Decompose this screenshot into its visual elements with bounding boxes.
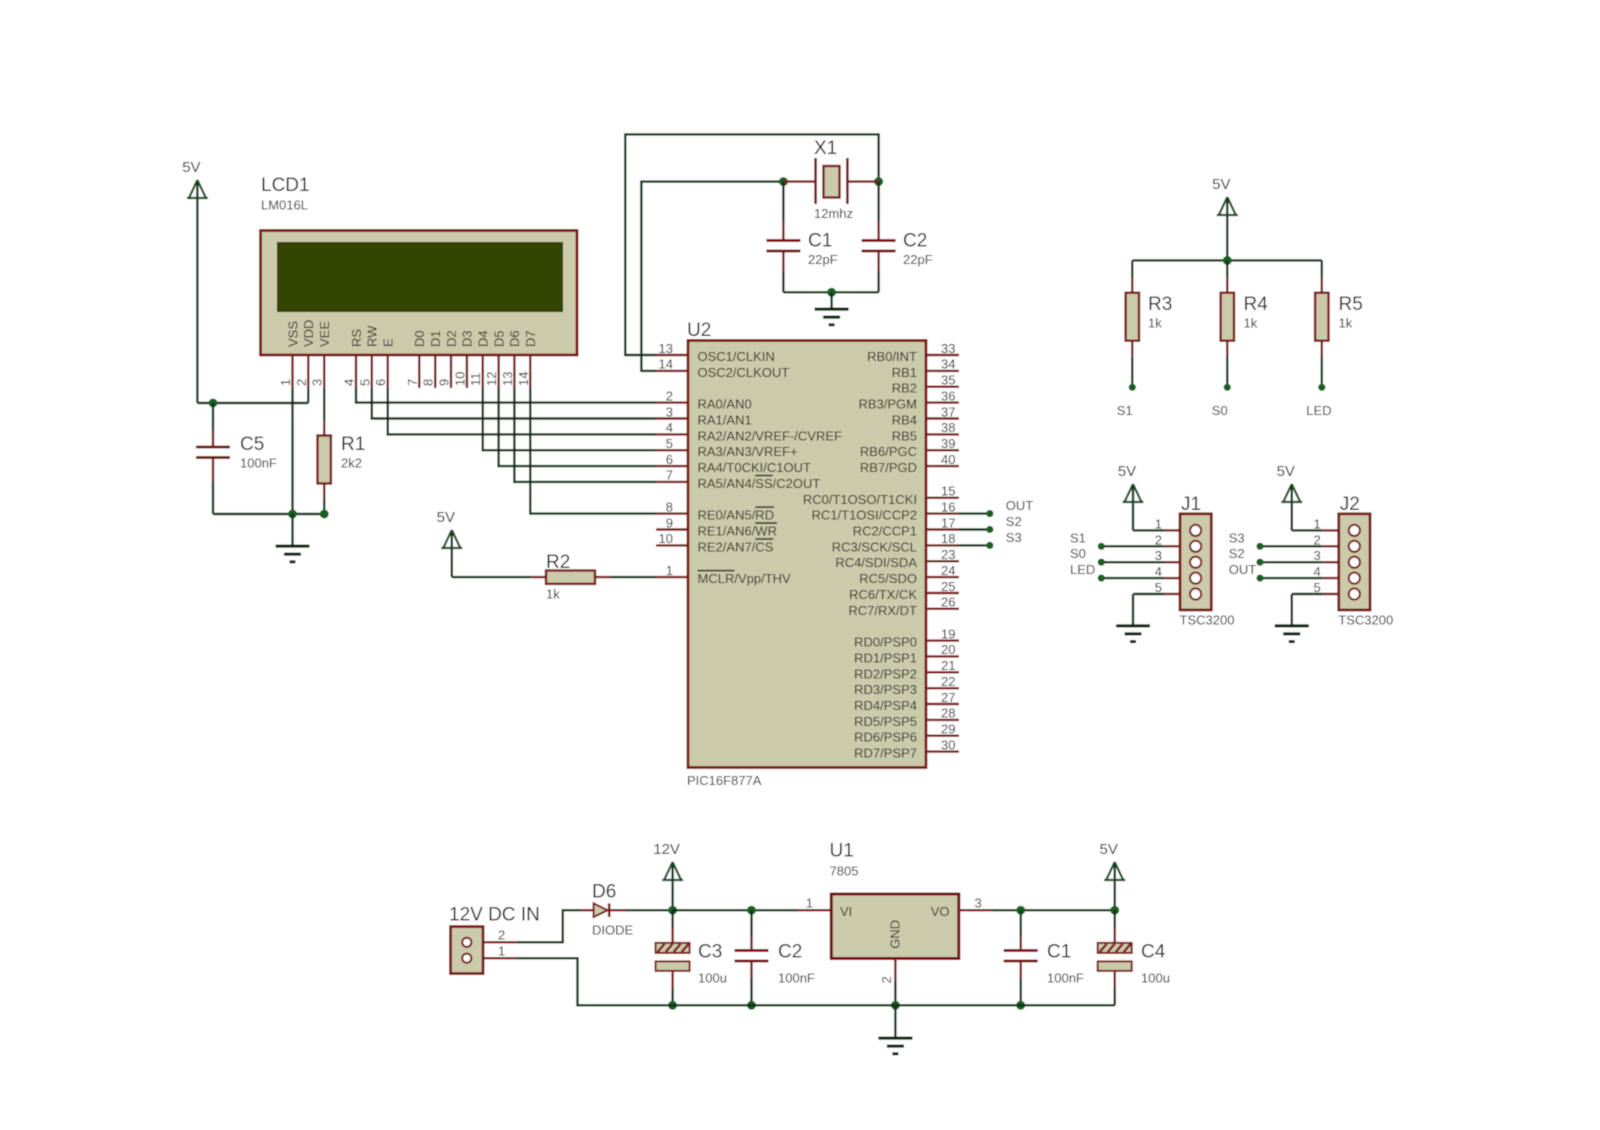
wire 5V rail (993, 909, 1115, 911)
U2 pin number 10 (659, 531, 673, 546)
regulator U1 7805 (830, 841, 959, 959)
svg-text:RC2/CCP1: RC2/CCP1 (853, 524, 917, 539)
svg-text:R4: R4 (1244, 294, 1269, 315)
ground LCD ground (276, 514, 310, 563)
wire R5 lower lead (1321, 357, 1323, 387)
svg-text:13: 13 (500, 372, 515, 386)
svg-text:1k: 1k (1244, 316, 1258, 331)
power 5V 5V-r2 (437, 509, 463, 577)
svg-text:2: 2 (1314, 532, 1321, 547)
node C1p top junction (1016, 906, 1025, 915)
capacitor C4 100u (electrolytic) (1098, 942, 1170, 986)
wire VDD drop (307, 388, 309, 403)
svg-text:1k: 1k (1339, 316, 1353, 331)
U2 pin 3 stub (656, 417, 688, 419)
U2 pin number 19 (941, 626, 955, 641)
svg-text:19: 19 (941, 626, 955, 641)
U2 pin number 38 (941, 420, 955, 435)
wire C2p upper lead (750, 910, 752, 936)
node terminal S0 (1224, 384, 1231, 391)
J2 pin number 4 (1314, 564, 1321, 579)
LCD pin 11 (D4) stub (482, 355, 484, 388)
U2 pin label 18 (832, 539, 917, 554)
wire OSC1 to crystal right (625, 134, 878, 355)
svg-text:5V: 5V (182, 159, 200, 176)
svg-text:7: 7 (666, 468, 673, 483)
svg-text:3: 3 (975, 896, 982, 911)
U1 pin number 1 (806, 896, 813, 911)
svg-text:PIC16F877A: PIC16F877A (687, 773, 762, 788)
12V-in pin number 2 (498, 928, 505, 943)
svg-text:2: 2 (294, 379, 309, 386)
connector J1 pin 4 stub (1164, 577, 1180, 579)
svg-text:1: 1 (806, 896, 813, 911)
svg-text:RC0/T1OSO/T1CKI: RC0/T1OSO/T1CKI (803, 492, 917, 507)
LCD pin 8 (D1) stub (434, 355, 436, 388)
svg-text:100nF: 100nF (1047, 971, 1084, 986)
U2 pin number 34 (941, 357, 955, 372)
U2 pin label 36 (858, 397, 917, 412)
svg-text:RB2: RB2 (892, 381, 917, 396)
U1 pin 3 stub (959, 909, 993, 911)
LCD pin 12 (D5) stub (497, 355, 499, 388)
resistor R5 (1315, 293, 1363, 341)
net label S1 (1070, 530, 1086, 545)
svg-text:23: 23 (941, 547, 955, 562)
LCD pin number 14 (516, 372, 531, 386)
LCD pin number 11 (468, 373, 483, 387)
svg-text:2: 2 (666, 388, 673, 403)
svg-text:R1: R1 (341, 434, 365, 455)
U2 pin label 2 (698, 397, 752, 412)
svg-text:10: 10 (659, 531, 673, 546)
svg-text:27: 27 (941, 690, 955, 705)
U2 pin 6 stub (656, 465, 688, 467)
wire pin2 to diode (516, 910, 580, 942)
U2 pin 5 stub (656, 449, 688, 451)
svg-text:10: 10 (452, 372, 467, 386)
svg-text:22pF: 22pF (903, 252, 933, 267)
svg-text:RD0/PSP0: RD0/PSP0 (854, 635, 917, 650)
svg-text:D6: D6 (507, 330, 522, 347)
resistor R4 bottom stub (1226, 341, 1228, 357)
LCD pin number 3 (310, 379, 325, 386)
connector J2 pin 5 stub (1323, 593, 1339, 595)
LCD pin number 4 (342, 379, 357, 386)
node terminal S2 (986, 526, 993, 533)
LCD pin 13 (D6) stub (513, 355, 515, 388)
svg-text:RD4/PSP4: RD4/PSP4 (854, 698, 917, 713)
LCD pin 4 (RS) stub (355, 355, 357, 388)
node crystal gnd junction (827, 288, 836, 297)
net label LED (1070, 562, 1095, 577)
LCD pin 7 (D0) stub (418, 355, 420, 388)
U2 pin label 3 (698, 413, 752, 428)
svg-text:38: 38 (941, 420, 955, 435)
connector J2 pin 2 stub (1323, 545, 1339, 547)
U2 pin number 23 (941, 547, 955, 562)
LCD pin number 8 (421, 379, 436, 386)
svg-text:33: 33 (941, 341, 955, 356)
wire C5 lower lead (212, 481, 214, 514)
svg-text:RD6/PSP6: RD6/PSP6 (854, 730, 917, 745)
U2 pin number 6 (666, 452, 673, 467)
svg-text:RD1/PSP1: RD1/PSP1 (854, 650, 917, 665)
U2 pin 26 stub (926, 608, 959, 610)
svg-text:RE1/AN6/WR: RE1/AN6/WR (698, 524, 777, 539)
wire VSS drop (291, 388, 293, 514)
svg-text:5V: 5V (1100, 841, 1118, 858)
U2 pin number 7 (666, 468, 673, 483)
connector J2 TSC3200 (1338, 494, 1393, 628)
svg-text:6: 6 (373, 379, 388, 386)
U2 pin 14 stub (656, 370, 688, 372)
svg-text:U1: U1 (830, 841, 854, 862)
12V-in pin number 1 (498, 944, 505, 959)
U2 pin number 20 (941, 642, 955, 657)
svg-text:RA4/T0CKI/C1OUT: RA4/T0CKI/C1OUT (698, 460, 811, 475)
svg-text:RA2/AN2/VREF-/CVREF: RA2/AN2/VREF-/CVREF (698, 428, 843, 443)
capacitor C4 top stub (1113, 928, 1115, 944)
svg-text:S0: S0 (1070, 546, 1086, 561)
ground supply ground (878, 1005, 912, 1055)
capacitor C5 top stub (212, 431, 214, 447)
node C2p bottom junction (747, 1001, 756, 1010)
power 5V 5V-r345 (1212, 176, 1238, 260)
svg-text:13: 13 (659, 341, 673, 356)
svg-text:36: 36 (941, 388, 955, 403)
U1 pin number 3 (975, 896, 982, 911)
wire C2p lower lead (750, 978, 752, 1005)
svg-text:22: 22 (941, 674, 955, 689)
U2 pin label 17 (853, 524, 917, 539)
U2 pin label 6 (698, 460, 811, 475)
svg-text:S2: S2 (1006, 514, 1022, 529)
svg-text:LM016L: LM016L (261, 198, 308, 213)
wire J1 pin2 wire (1101, 545, 1164, 547)
svg-text:RC1/T1OSI/CCP2: RC1/T1OSI/CCP2 (812, 508, 917, 523)
LCD pin 10 (D3) stub (466, 355, 468, 388)
svg-text:39: 39 (941, 436, 955, 451)
U2 pin number 16 (941, 499, 955, 514)
node crystal right node (874, 177, 883, 186)
svg-text:6: 6 (666, 452, 673, 467)
svg-text:D1: D1 (428, 330, 443, 347)
svg-text:RC7/RX/DT: RC7/RX/DT (848, 603, 917, 618)
U2 pin number 5 (666, 436, 673, 451)
U2 pin 36 stub (926, 401, 959, 403)
svg-text:RA5/AN4/SS/C2OUT: RA5/AN4/SS/C2OUT (698, 476, 821, 491)
svg-text:LCD1: LCD1 (261, 175, 310, 196)
U2 pin number 3 (666, 404, 673, 419)
U2 pin label 33 (867, 349, 917, 364)
U2 pin number 13 (659, 341, 673, 356)
svg-text:26: 26 (941, 595, 955, 610)
net label OUT (1229, 562, 1257, 577)
crystal X1 12mhz (814, 138, 853, 221)
svg-text:4: 4 (1155, 564, 1162, 579)
svg-text:5: 5 (1314, 580, 1321, 595)
svg-text:MCLR/Vpp/THV: MCLR/Vpp/THV (698, 571, 792, 586)
svg-text:8: 8 (666, 499, 673, 514)
wire 5V bus R3-R5 (1132, 259, 1322, 261)
resistor R3 bottom stub (1131, 341, 1133, 357)
capacitor C3 100u (electrolytic) (656, 942, 727, 986)
U2 pin 8 stub (656, 512, 688, 514)
wire U2 to S2 (959, 528, 990, 530)
U2 pin 21 stub (926, 671, 959, 673)
svg-text:RB0/INT: RB0/INT (867, 349, 917, 364)
svg-text:RC4/SDI/SDA: RC4/SDI/SDA (835, 555, 917, 570)
LCD pin number 2 (294, 379, 309, 386)
U2 pin number 2 (666, 388, 673, 403)
svg-text:C1: C1 (808, 231, 832, 252)
svg-text:100nF: 100nF (778, 971, 815, 986)
J1 pin number 4 (1155, 564, 1162, 579)
svg-text:5V: 5V (1212, 176, 1230, 193)
wire J1 pin4 wire (1101, 577, 1164, 579)
U2 pin number 26 (941, 595, 955, 610)
U2 pin label 19 (854, 635, 917, 650)
svg-text:S0: S0 (1212, 403, 1228, 418)
wire C3 lower lead (671, 988, 673, 1005)
wire R1 lower lead (323, 499, 325, 514)
J1 pin number 1 (1155, 516, 1162, 531)
U2 pin number 4 (666, 420, 673, 435)
svg-text:28: 28 (941, 706, 955, 721)
svg-text:17: 17 (941, 515, 955, 530)
ground crystal ground (815, 292, 849, 326)
node gnd rail junction (891, 1001, 900, 1010)
svg-text:100u: 100u (1141, 971, 1170, 986)
capacitor C2 bottom stub (877, 252, 879, 272)
svg-text:TSC3200: TSC3200 (1338, 613, 1393, 628)
svg-text:9: 9 (666, 515, 673, 530)
wire D4 to RA3 (483, 388, 656, 450)
node crystal left node (779, 177, 788, 186)
U2 pin label 22 (854, 682, 917, 697)
svg-text:35: 35 (941, 373, 955, 388)
svg-text:OSC2/CLKOUT: OSC2/CLKOUT (698, 365, 790, 380)
svg-text:14: 14 (516, 372, 531, 386)
svg-text:11: 11 (468, 373, 483, 387)
U2 pin label 9 (698, 523, 778, 538)
svg-text:3: 3 (1155, 548, 1162, 563)
svg-text:5V: 5V (1118, 463, 1136, 480)
svg-text:C3: C3 (698, 942, 722, 963)
svg-text:RC5/SDO: RC5/SDO (859, 571, 917, 586)
svg-text:100u: 100u (698, 971, 727, 986)
U2 pin label 30 (854, 746, 917, 761)
svg-text:RW: RW (365, 325, 380, 347)
U2 pin 30 stub (926, 750, 959, 752)
svg-text:8: 8 (421, 379, 436, 386)
U2 pin 9 stub (656, 528, 688, 530)
svg-text:TSC3200: TSC3200 (1180, 613, 1235, 628)
svg-text:DIODE: DIODE (592, 923, 634, 938)
wire D6 to RA5 (514, 388, 656, 482)
U2 pin number 15 (941, 484, 955, 499)
LCD pin number 6 (373, 379, 388, 386)
node terminal OUT (986, 510, 993, 517)
wire C3 upper lead (671, 910, 673, 928)
U2 pin number 18 (941, 531, 955, 546)
U2 pin label 26 (848, 603, 917, 618)
svg-text:15: 15 (941, 484, 955, 499)
connector J1 pin 5 stub (1164, 593, 1180, 595)
svg-text:D7: D7 (523, 330, 538, 347)
svg-text:24: 24 (941, 563, 955, 578)
svg-text:1: 1 (278, 379, 293, 386)
U2 pin label 23 (835, 555, 917, 570)
U1 pin 2 stub (894, 959, 896, 982)
svg-text:RB5: RB5 (892, 428, 917, 443)
U2 pin 7 stub (656, 481, 688, 483)
svg-text:C1: C1 (1047, 942, 1071, 963)
U2 pin 40 stub (926, 465, 959, 467)
svg-text:1: 1 (1314, 516, 1321, 531)
connector J1 pin 1 stub (1164, 529, 1180, 531)
svg-text:C4: C4 (1141, 942, 1166, 963)
U2 pin number 21 (941, 658, 955, 673)
capacitor C1p 100nF (1004, 942, 1084, 986)
U2 pin label 10 (698, 539, 774, 554)
capacitor C1 top stub (782, 221, 784, 241)
U2 pin number 8 (666, 499, 673, 514)
wire U2 to S3 (959, 544, 990, 546)
svg-text:12V DC IN: 12V DC IN (449, 905, 540, 926)
svg-text:RB1: RB1 (892, 365, 917, 380)
capacitor C3 top stub (671, 928, 673, 944)
U2 pin label 8 (698, 507, 775, 522)
svg-text:RB4: RB4 (892, 413, 917, 428)
capacitor C5 100nF (196, 434, 277, 471)
svg-text:VEE: VEE (317, 321, 332, 347)
capacitor C3 bottom stub (671, 971, 673, 988)
svg-text:E: E (381, 338, 396, 347)
svg-text:RA1/AN1: RA1/AN1 (698, 413, 752, 428)
svg-text:5: 5 (1155, 580, 1162, 595)
wire R4 upper lead (1226, 260, 1228, 277)
U2 pin 20 stub (926, 655, 959, 657)
wire J1 pin5 wire (1133, 593, 1164, 595)
svg-text:7: 7 (405, 379, 420, 386)
node J1 terminal S1 (1098, 543, 1105, 550)
capacitor C1p top stub (1020, 936, 1022, 951)
svg-text:37: 37 (941, 404, 955, 419)
connector J1 pin 2 stub (1164, 545, 1180, 547)
U2 pin 35 stub (926, 386, 959, 388)
U2 pin 19 stub (926, 639, 959, 641)
LCD pin 6 (E) stub (387, 355, 389, 388)
power 5V 5V-reg (1100, 841, 1126, 910)
U2 pin number 25 (941, 579, 955, 594)
U2 pin label 40 (860, 460, 917, 475)
U2 pin 37 stub (926, 417, 959, 419)
net label OUT (1006, 498, 1034, 513)
node J1 terminal S0 (1098, 559, 1105, 566)
connector J2 pin 1 stub (1323, 529, 1339, 531)
svg-text:RE2/AN7/CS: RE2/AN7/CS (698, 539, 774, 554)
U2 pin 17 stub (926, 528, 959, 530)
wire OSC2 to crystal left (641, 182, 783, 371)
U2 pin number 36 (941, 388, 955, 403)
U2 pin 1 stub (656, 576, 688, 578)
svg-text:14: 14 (659, 357, 673, 372)
svg-text:21: 21 (941, 658, 955, 673)
resistor R2 (546, 552, 595, 602)
LCD pin number 10 (452, 372, 467, 386)
U2 pin number 35 (941, 373, 955, 388)
svg-text:U2: U2 (687, 320, 711, 341)
U2 pin number 1 (666, 563, 673, 578)
svg-text:OSC1/CLKIN: OSC1/CLKIN (698, 349, 775, 364)
wire 5V to VDD rail (197, 402, 308, 404)
svg-text:R2: R2 (546, 552, 570, 573)
svg-text:RD7/PSP7: RD7/PSP7 (854, 746, 917, 761)
svg-text:16: 16 (941, 499, 955, 514)
svg-text:20: 20 (941, 642, 955, 657)
wire C1p lower lead (1020, 978, 1022, 1005)
U2 pin 10 stub (656, 544, 688, 546)
svg-text:18: 18 (941, 531, 955, 546)
LCD pin 3 (VEE) stub (323, 355, 325, 388)
node C5 tap (209, 399, 218, 408)
LCD pin 2 (VDD) stub (307, 355, 309, 388)
U2 pin number 22 (941, 674, 955, 689)
svg-text:RC6/TX/CK: RC6/TX/CK (849, 587, 917, 602)
LCD pin number 9 (437, 379, 452, 386)
U2 pin 28 stub (926, 719, 959, 721)
resistor R3 top stub (1131, 278, 1133, 294)
svg-text:S3: S3 (1006, 530, 1022, 545)
node C1p bottom junction (1016, 1001, 1025, 1010)
U2 pin label 16 (812, 508, 917, 523)
resistor R2 left stub (531, 576, 547, 578)
capacitor C2 top stub (877, 221, 879, 241)
svg-text:2k2: 2k2 (341, 456, 362, 471)
J2 pin number 2 (1314, 532, 1321, 547)
svg-text:1k: 1k (1148, 316, 1162, 331)
resistor R2 right stub (594, 576, 611, 578)
svg-text:RE0/AN5/RD: RE0/AN5/RD (698, 508, 775, 523)
svg-text:D3: D3 (460, 330, 475, 347)
crystal X1 left stub (783, 180, 816, 182)
node 12V junction (668, 906, 677, 915)
node J1 terminal LED (1098, 575, 1105, 582)
svg-text:J2: J2 (1340, 494, 1360, 515)
svg-text:C2: C2 (903, 231, 927, 252)
svg-text:D5: D5 (491, 330, 506, 347)
svg-text:9: 9 (437, 379, 452, 386)
connector J1 pin 3 stub (1164, 561, 1180, 563)
wire D7 to RE0 (530, 388, 656, 514)
U2 pin number 33 (941, 341, 955, 356)
svg-text:1: 1 (1155, 516, 1162, 531)
diode D6 (592, 882, 634, 938)
svg-text:X1: X1 (814, 138, 837, 159)
power 12V 12V-reg (653, 841, 683, 910)
U2 pin 24 stub (926, 576, 959, 578)
svg-text:2: 2 (1155, 532, 1162, 547)
wire C4 upper lead (1113, 910, 1115, 928)
wire R2 to MCLR (611, 576, 656, 578)
U2 pin label 27 (854, 698, 917, 713)
U2 pin label 38 (892, 428, 917, 443)
svg-text:RA0/AN0: RA0/AN0 (698, 397, 752, 412)
U2 pin 27 stub (926, 703, 959, 705)
U2 pin 15 stub (926, 497, 959, 499)
